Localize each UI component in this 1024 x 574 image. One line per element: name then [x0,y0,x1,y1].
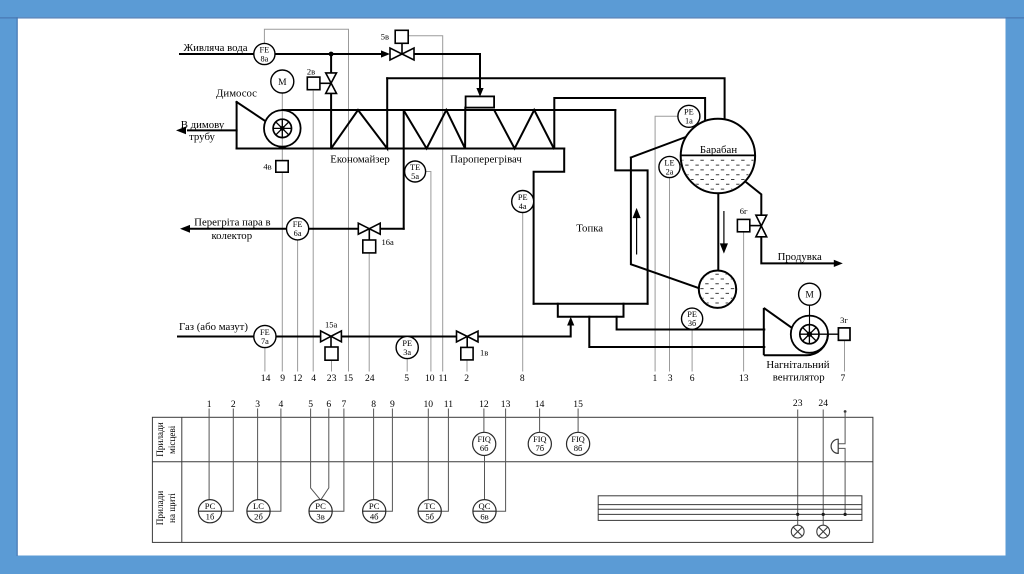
pipe: downcomer drum to lower header [717,193,719,271]
svg-text:24: 24 [365,373,375,384]
svg-text:5б: 5б [425,512,434,522]
svg-text:3а: 3а [403,348,411,357]
motor M of draft fan [799,283,821,305]
table frame [152,417,873,542]
panel circle texts [205,435,585,521]
chimney exhaust line [188,129,237,131]
wire: signal 4 from valve 2v box to row [312,91,314,372]
svg-text:6а: 6а [294,229,302,238]
svg-text:6г: 6г [740,206,748,216]
lamp 23 [791,525,804,538]
svg-text:1: 1 [207,399,212,410]
svg-text:2: 2 [231,399,236,410]
svg-text:Перегріта пара в: Перегріта пара в [194,216,271,228]
svg-text:В димову: В димову [181,119,225,131]
panel wire 2 [222,409,234,512]
damper box 4v under smoke exhauster [276,161,288,173]
pipe: superheated steam to collector [380,228,404,230]
svg-text:15а: 15а [325,319,338,329]
furnace right wall with step [615,110,647,304]
svg-text:РЕ: РЕ [687,310,697,319]
svg-text:6: 6 [326,399,331,410]
instrument PE 1a [678,105,700,127]
instrument TE 5a [405,161,426,182]
svg-text:РЕ: РЕ [402,339,412,348]
valve 6g (blowdown, vertical) with side box [737,215,766,237]
svg-text:7: 7 [841,373,846,384]
flue gas duct bottom line [237,148,565,150]
junction dots on bus strip [796,513,847,516]
panel instrument PC 1b [198,500,221,523]
panel wire 10 [427,409,429,500]
svg-text:3г: 3г [840,315,848,325]
panel wire 23 to lamp [797,410,799,526]
valve 5v (feedwater control) with actuator box [390,30,414,60]
svg-text:8б: 8б [574,443,583,453]
attemperator header box on superheater [466,96,495,107]
panel wire 9 [386,409,393,512]
instrument PE 4a [512,191,534,213]
svg-text:LE: LE [664,158,674,167]
table row divider [152,461,873,463]
instrument FE 7a [254,325,276,347]
burner box under furnace [558,304,624,317]
wire: signal 9 M1 through fan and 4v to row [281,93,283,161]
svg-text:7б: 7б [535,443,544,453]
link fan hub to 3g box [819,333,838,335]
svg-text:10: 10 [425,373,435,384]
junction: feedwater branch node [329,52,334,57]
furnace top left step [534,149,565,304]
svg-text:РС: РС [315,501,326,511]
svg-text:6б: 6б [480,443,489,453]
dot on bell wire top [844,410,847,413]
lower header drum [698,271,738,308]
wire: signal 10 TE5a to row [426,172,431,372]
air duct from fan to burner [617,317,765,330]
svg-text:Економайзер: Економайзер [330,154,389,166]
svg-text:1б: 1б [206,512,215,522]
svg-text:11: 11 [444,399,453,410]
panel wire 13 [496,409,506,512]
arrow: feedwater into valve 5v [381,50,390,57]
pipe: riser wall and diagonal to lower header [631,158,700,289]
panel wire 4 [270,409,281,512]
superheater coil left section [404,108,466,149]
wire: signal 2 from valve 1v box to row [466,360,468,372]
svg-text:4а: 4а [519,202,527,211]
panel wire 12 lower FIQ6b to QC6v [484,456,486,500]
wire: signal 1 PE1a to row [655,116,678,371]
svg-text:8а: 8а [260,54,268,63]
panel wire 8 [373,409,375,500]
smoke exhauster duct to chimney [236,102,238,149]
svg-text:FE: FE [260,328,270,337]
steam drum (Барабан) [680,119,756,193]
svg-text:12: 12 [479,399,489,410]
arrow: feedwater down into attemperator [476,88,483,97]
svg-text:Продувка: Продувка [778,251,822,263]
valve 15a (gas line) with bottom box [321,331,342,360]
svg-text:11: 11 [438,373,447,384]
wire: signal 7 from 3g box to row [844,340,846,371]
wire: signal 12 FE6a to row [297,240,299,372]
svg-text:13: 13 [501,399,511,410]
panel wire 14 [539,409,541,433]
bell symbol (alarm) [831,439,838,453]
svg-text:12: 12 [293,373,303,384]
svg-text:колектор: колектор [211,230,252,242]
smoke exhauster fan (Димосос) [264,110,301,147]
svg-text:Живляча вода: Живляча вода [183,42,247,54]
svg-text:Топка: Топка [576,223,603,235]
panel wire 24 to lamp [822,410,824,526]
svg-text:10: 10 [424,399,434,410]
panel wire 3 [257,409,259,500]
superheater coil right section [494,110,554,149]
local instrument circles top row [473,432,590,455]
lamp 24 [817,525,830,538]
local instrument FIQ 6b [473,432,496,455]
motor M of smoke exhauster [271,70,294,93]
panel instrument LC 2b [247,500,270,523]
pipe: riser diagonal to drum [631,136,690,158]
svg-text:4: 4 [279,399,284,410]
pipe: feed water branch to economizer [330,54,332,73]
svg-text:14: 14 [261,373,271,384]
pipe: economizer to drum transfer line [387,78,724,120]
svg-text:3в: 3в [316,512,324,522]
panel wire 12 upper [483,409,485,433]
pipe: feed water line [180,53,254,55]
wire: signal 24 from valve 16a box to row [368,253,370,372]
panel wire 15 [577,409,579,433]
svg-text:7: 7 [342,399,347,410]
valve 1v (gas line) with bottom box [457,331,479,360]
svg-text:вентилятор: вентилятор [773,372,825,384]
drum water level line [681,154,755,156]
svg-text:4б: 4б [370,512,379,522]
instrument PE 3a [396,336,418,358]
panel wire to bell [838,413,845,444]
svg-text:9: 9 [390,399,395,410]
svg-text:23: 23 [327,373,337,384]
economizer coil [331,78,387,148]
svg-text:QC: QC [479,501,491,511]
svg-text:6: 6 [690,373,695,384]
svg-text:1: 1 [653,373,658,384]
svg-text:14: 14 [535,399,545,410]
svg-text:6в: 6в [480,512,488,522]
wire: signal 11 from valve 5v box to row [408,36,443,372]
svg-text:15: 15 [573,399,583,410]
panel instrument TC 5b [418,500,441,523]
numbers row above panel table [207,398,828,410]
panel instrument QC 6v [473,500,496,523]
svg-text:1в: 1в [480,348,488,358]
instrument LE 2a [659,156,680,177]
svg-text:FE: FE [293,220,303,229]
numbers row under diagram [261,373,846,384]
svg-text:ТЕ: ТЕ [410,163,420,172]
instrument PE 3b [682,308,703,329]
svg-text:5а: 5а [411,172,419,181]
rotated row labels [155,422,177,525]
local instrument FIQ 7b [528,432,551,455]
svg-text:FE: FE [260,45,270,54]
panel instrument PC 3v [309,500,332,523]
table label column divider [181,417,183,542]
svg-text:4в: 4в [263,162,271,172]
svg-text:2б: 2б [254,512,263,522]
pipe: superheater outlet down to collector line [403,110,405,229]
panel wire 5 [311,409,321,500]
pipe: gas (fuel) line [178,336,254,338]
svg-text:на щиті: на щиті [167,493,177,523]
svg-text:трубу: трубу [189,131,215,143]
wire: signal 5 PE3a to row [406,359,408,372]
bus strip (panel cable raceway) [598,496,862,521]
wire: signal 3 LE2a to row [669,178,671,372]
arrow: blowdown right [834,260,843,267]
local instrument FIQ 8b [567,432,590,455]
arrow: gas up into burner [567,317,574,326]
wire: signal 14 FE7a to row [264,348,266,372]
wire: signal 23 from valve 15a box to row [331,360,333,371]
wire: signal 15 from FE8a up-over-down to row [264,29,348,371]
arrow: superheated steam to collector (left) [180,225,190,233]
svg-text:РС: РС [205,501,216,511]
svg-text:Прилади: Прилади [155,491,165,525]
svg-text:М: М [805,291,814,301]
furnace bottom [534,303,648,305]
svg-text:7а: 7а [261,337,269,346]
panel wire 7 [332,409,344,512]
svg-text:Газ (або мазут): Газ (або мазут) [179,321,248,333]
svg-text:РС: РС [369,501,380,511]
instrument circle texts [260,45,815,357]
svg-text:3: 3 [255,399,260,410]
panel wire 6 [321,409,329,500]
arrow: riser flow up [633,210,639,255]
svg-text:2: 2 [464,373,469,384]
svg-text:8: 8 [520,373,525,384]
svg-text:5: 5 [308,399,313,410]
arrow: to chimney (left) [176,127,186,135]
valve 2v (economizer branch, vertical) with side box [307,73,336,94]
instrument FE 6a [287,218,309,240]
svg-text:Димосос: Димосос [216,88,257,100]
svg-text:9: 9 [280,373,285,384]
forced draft fan (Нагнітальний вентилятор) [764,305,839,355]
svg-text:РЕ: РЕ [518,193,528,202]
svg-text:2а: 2а [666,167,674,176]
pipe: blowdown line from drum [744,181,761,216]
svg-text:5в: 5в [381,32,389,42]
svg-text:24: 24 [818,398,828,409]
svg-text:LC: LC [253,501,264,511]
svg-text:3б: 3б [688,319,696,328]
svg-text:13: 13 [739,373,749,384]
svg-text:15: 15 [344,373,354,384]
wire: signal 8 PE4a to row [522,213,524,372]
wire: signal 13 from valve 6g box to row [743,232,745,372]
svg-text:ТС: ТС [424,501,435,511]
svg-text:23: 23 [793,398,803,409]
svg-text:РЕ: РЕ [684,108,694,117]
arrow: downcomer flow down [721,211,727,252]
panel instrument PC 4b [363,500,386,523]
wire: signal 6 PE3b to row [691,329,693,371]
svg-text:4: 4 [311,373,316,384]
motor link M2 to fan [809,305,811,325]
instrument FE 8a [254,43,275,64]
panel wire 11 [441,409,448,512]
panel instrument circles bottom row (with midline) [198,500,496,523]
svg-text:місцеві: місцеві [167,425,177,454]
pipe: drum to superheater [554,98,705,149]
box 3g at draft fan [838,328,850,340]
flue gas duct top line [283,109,616,111]
panel wire 1 [208,409,210,500]
svg-text:16а: 16а [382,237,395,247]
svg-text:3: 3 [668,373,673,384]
svg-text:2в: 2в [307,67,315,77]
svg-text:1а: 1а [685,117,693,126]
svg-text:М: М [278,78,287,88]
valve 16a (steam to collector) with bottom box [358,223,380,253]
svg-text:Пароперегрівач: Пароперегрівач [450,154,522,166]
svg-text:5: 5 [404,373,409,384]
svg-text:Нагнітальний: Нагнітальний [766,359,829,371]
svg-text:8: 8 [371,399,376,410]
svg-text:Прилади: Прилади [155,422,165,456]
svg-text:Барабан: Барабан [700,144,737,156]
